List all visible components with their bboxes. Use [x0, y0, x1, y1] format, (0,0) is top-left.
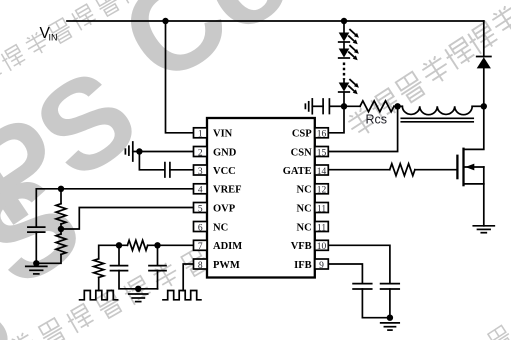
wire divider top — [60, 189, 62, 204]
LED D1 — [339, 29, 359, 44]
wire divider bottom to ground — [36, 254, 61, 263]
svg-text:11: 11 — [317, 204, 326, 214]
wire LED string bottom — [343, 92, 345, 106]
wire node to Rcs — [344, 105, 360, 107]
capacitor C_vfb — [381, 284, 400, 289]
wire C_vref to ground — [35, 232, 37, 263]
op-amp U1 IC body — [207, 118, 315, 278]
svg-text:VCC: VCC — [213, 166, 236, 177]
capacitor C_adim1 — [111, 266, 128, 271]
svg-text:IFB: IFB — [294, 260, 312, 271]
svg-text:GATE: GATE — [283, 166, 312, 177]
pin 4 VREF — [194, 184, 242, 196]
diode D4 freewheel — [477, 57, 491, 69]
svg-text:NC: NC — [297, 203, 312, 214]
wire PWM pin down — [183, 264, 193, 291]
transistor Q1 NMOS — [457, 148, 483, 226]
wire ADIM cap1 top — [118, 245, 120, 265]
node VIN label — [40, 25, 58, 43]
wire GND node down to VCC cap — [139, 152, 164, 170]
resistor R_gate — [390, 164, 415, 176]
wire R_dim to waveform — [98, 277, 100, 290]
ground at ADIM caps — [129, 294, 148, 302]
inductor L1 — [398, 106, 484, 122]
svg-text:NC: NC — [297, 222, 312, 233]
svg-text:10: 10 — [317, 242, 327, 252]
node inductor / diode / drain junction — [481, 103, 487, 109]
svg-text:6: 6 — [198, 223, 203, 233]
wire VREF pin left — [36, 189, 193, 227]
wire node to output capacitor — [330, 105, 344, 107]
resistor R_div1 — [56, 204, 66, 224]
svg-text:3: 3 — [198, 167, 203, 177]
svg-text:11: 11 — [317, 223, 326, 233]
waveform PWM input right — [163, 291, 201, 300]
svg-text:Rcs: Rcs — [366, 113, 388, 127]
pin 3 VCC — [194, 165, 236, 177]
svg-text:OVP: OVP — [213, 203, 236, 214]
waveform PWM input left — [80, 291, 118, 300]
wire CSN pin to inductor node — [328, 106, 397, 151]
wire gate resistor to MOSFET gate — [415, 169, 458, 171]
svg-text:15: 15 — [317, 148, 327, 158]
svg-text:NC: NC — [297, 185, 312, 196]
wire VIN top rail — [67, 20, 484, 22]
wire ADIM left segment — [99, 245, 128, 258]
node Rcs / inductor / CSN junction — [394, 103, 400, 109]
resistor Rcs — [360, 101, 394, 112]
resistor R_adim — [127, 240, 147, 250]
svg-text:9: 9 — [319, 261, 324, 271]
ground at MOSFET source — [473, 226, 494, 233]
pin 10 VFB — [291, 240, 329, 252]
svg-text:14: 14 — [317, 167, 327, 177]
svg-text:8: 8 — [198, 261, 203, 271]
wire CSP pin to LED node — [328, 106, 344, 133]
wire dotted continuation of LED string — [343, 63, 345, 80]
pin 11 NC — [297, 203, 329, 215]
LED D2 — [339, 45, 359, 60]
ground sideways at C_out — [305, 99, 312, 114]
svg-text:CSN: CSN — [291, 147, 312, 158]
pin 8 PWM — [194, 259, 240, 271]
svg-text:12: 12 — [317, 186, 327, 196]
node GND junction — [136, 148, 142, 154]
wire VFB pin to capacitor — [328, 245, 390, 283]
wire divider middle — [60, 224, 62, 234]
wire top rail down to diode — [483, 21, 485, 57]
node ADIM ground junction — [135, 286, 141, 292]
pin 11b NC — [297, 222, 329, 234]
wire C_vfb to ground node — [389, 289, 391, 318]
svg-text:VIN: VIN — [213, 129, 233, 140]
wire LED string to D3 — [343, 80, 345, 83]
svg-text:VREF: VREF — [213, 185, 242, 196]
pin 15 CSN — [291, 147, 329, 159]
wire LED string top — [343, 21, 345, 33]
node VREF divider top — [58, 186, 64, 192]
pin 12 NC — [297, 184, 329, 196]
ground sideways at GND pin — [125, 142, 132, 161]
wire IFB pin to capacitor — [328, 264, 362, 283]
node ADIM left cap junction — [116, 242, 122, 248]
svg-text:IN: IN — [49, 33, 58, 43]
pin 1 VIN — [194, 128, 233, 140]
node ground junction left — [33, 260, 39, 266]
pin 7 ADIM — [194, 240, 243, 252]
wire capacitor to ground — [312, 105, 323, 107]
svg-text:7: 7 — [198, 242, 203, 252]
wire C_ifb to ground node — [362, 289, 390, 318]
wire GND pin to ground — [133, 151, 194, 153]
wire ADIM pin left — [148, 244, 194, 246]
wire LED D1-D2 — [343, 42, 345, 49]
svg-text:16: 16 — [317, 130, 327, 140]
pin 16 CSP — [292, 128, 328, 140]
node ground junction bottom right — [387, 315, 393, 321]
svg-text:CSP: CSP — [292, 129, 312, 140]
pin 5 OVP — [194, 203, 236, 215]
resistor R_div2 — [56, 234, 66, 254]
pin 9 IFB — [294, 259, 328, 271]
wire diode to node — [483, 68, 485, 106]
capacitor C_vref — [28, 227, 45, 232]
wire ADIM cap2 top — [157, 245, 159, 265]
wire ADIM cap2 bottom — [157, 271, 159, 289]
node junction top rail / VIN branch — [162, 18, 168, 24]
svg-text:ADIM: ADIM — [213, 241, 242, 252]
pin 14 GATE — [283, 165, 329, 177]
node divider middle — [58, 226, 64, 232]
svg-text:4: 4 — [198, 186, 203, 196]
svg-text:2: 2 — [198, 148, 203, 158]
capacitor C_ifb — [353, 284, 372, 289]
pin 6 NC — [194, 222, 229, 234]
node junction top rail / LED string — [341, 18, 347, 24]
resistor R_dim vertical — [94, 259, 104, 278]
svg-text:VFB: VFB — [291, 241, 312, 252]
wire VIN branch to pin 1 — [166, 21, 194, 133]
svg-text:GND: GND — [213, 147, 237, 158]
capacitor C_vcc — [165, 163, 170, 177]
capacitor C_out — [323, 99, 329, 114]
wire C_vcc to VCC pin — [170, 169, 194, 171]
svg-text:1: 1 — [198, 130, 203, 140]
pin 2 GND — [194, 147, 237, 159]
node ADIM right cap junction — [154, 242, 160, 248]
LED D3 — [339, 79, 359, 94]
wire Rcs to node — [394, 105, 398, 107]
capacitor C_adim2 — [149, 266, 166, 271]
wire GATE pin to resistor — [328, 169, 389, 171]
wire ADIM cap1 bottom — [119, 271, 158, 289]
svg-text:PWM: PWM — [213, 260, 240, 271]
svg-text:5: 5 — [198, 204, 203, 214]
svg-text:NC: NC — [213, 222, 228, 233]
ground bottom right — [381, 323, 400, 330]
ground bottom left — [26, 266, 47, 274]
wire OVP pin to divider middle — [61, 208, 194, 230]
node LED bottom junction — [341, 103, 347, 109]
wire node to MOSFET drain — [464, 106, 484, 149]
